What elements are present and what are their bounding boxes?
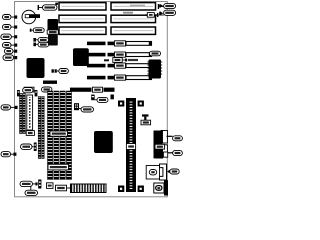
left edge connector label L5 xyxy=(4,49,17,54)
jumper J2 with links xyxy=(146,13,164,18)
PCI slot PCI3 xyxy=(87,63,152,68)
PCI slot PCI2 xyxy=(87,52,152,57)
connector block lower xyxy=(155,152,168,159)
DIMM socket DM1 xyxy=(27,95,33,130)
SIMM socket SM4 xyxy=(42,97,45,159)
connector COM/LPT block xyxy=(154,130,168,158)
connector label J1 xyxy=(159,3,175,8)
label COM1 (right) xyxy=(167,136,183,141)
label JP8 xyxy=(42,87,52,92)
left edge connector label L8 xyxy=(1,152,16,157)
left edge connector label L6 xyxy=(3,55,17,61)
ISA slot ISA2 segment B xyxy=(111,15,156,22)
chip U6 (super I/O) xyxy=(94,131,113,153)
jumper JP10 pins xyxy=(38,180,41,189)
connector CN1 (black bar) xyxy=(43,81,57,84)
label JP6 xyxy=(79,107,94,112)
SIMM socket SIMM4 xyxy=(66,91,71,180)
label JP9 xyxy=(21,144,34,149)
USB connector CN2 xyxy=(146,164,166,180)
retention hole top-left xyxy=(118,101,124,107)
ISA slot ISA1 segment A xyxy=(59,3,106,10)
label U1 xyxy=(47,30,58,34)
label SIMM bank1 xyxy=(50,131,68,136)
chip U2 xyxy=(48,35,58,46)
retention hole bottom-left xyxy=(118,186,124,193)
ISA slot ISA2 segment A xyxy=(59,15,106,22)
label USB (right) xyxy=(167,169,179,174)
PCI slot PCI4 xyxy=(87,75,152,80)
connector CN3 small xyxy=(47,183,54,189)
SIMM socket SM3 xyxy=(38,97,41,159)
SIMM socket SIMM1 xyxy=(48,91,53,180)
chip U5 (QFP) xyxy=(147,60,162,79)
ISA slot ISA3 segment A xyxy=(59,27,106,34)
battery BT1 xyxy=(22,10,40,24)
jumper JP8 xyxy=(35,90,38,96)
label CN4 xyxy=(56,185,71,191)
label U4 with left arrow xyxy=(52,69,69,74)
label JP3 xyxy=(36,38,49,43)
left edge connector label L2 xyxy=(2,25,17,30)
retention hole bottom-right xyxy=(138,186,144,193)
jumper block JP6 xyxy=(74,103,79,110)
CPU slot SLOT1 xyxy=(126,98,136,192)
SIMM socket SM1 xyxy=(20,94,23,134)
jumper JP9 pins xyxy=(34,143,37,152)
left edge connector label L7 xyxy=(1,105,18,110)
chip U1 xyxy=(48,19,59,30)
label JP5 xyxy=(95,97,108,102)
label JP2 xyxy=(30,28,44,33)
label JP11 xyxy=(25,187,38,196)
label PW1 (power conn) xyxy=(104,58,138,63)
ISA slot ISA3 segment B xyxy=(111,27,156,34)
label LPT1 (right) xyxy=(167,150,183,155)
board outline xyxy=(15,2,168,197)
left edge connector label L4 xyxy=(2,43,17,48)
USB1 text xyxy=(123,12,133,14)
left edge connector label L3 xyxy=(1,34,17,39)
label JP10 xyxy=(20,181,38,186)
arrow to connector J1 xyxy=(158,4,164,9)
label DM1 (bottom) xyxy=(26,131,34,136)
connector label J3 xyxy=(159,10,175,15)
ISA slot ISA1 segment B xyxy=(111,3,156,10)
label JP4 xyxy=(36,42,49,47)
FDD connector row xyxy=(70,87,115,92)
SIMM socket SIMM2 xyxy=(54,91,59,180)
jumper JP7 xyxy=(17,90,20,96)
PCI slot PCI1 xyxy=(87,41,152,46)
label DM1 (top) xyxy=(24,87,34,92)
jumper JP5b xyxy=(111,95,114,100)
ISA1 faint text xyxy=(130,5,145,7)
SIMM socket SIMM3 xyxy=(60,91,65,180)
jumper JP5 xyxy=(91,95,94,101)
chip U7 (cache) xyxy=(73,48,89,66)
label JP1 (battery) xyxy=(38,5,57,10)
jumper pins JP3/JP4 xyxy=(33,38,36,42)
end cap mark xyxy=(55,3,58,5)
left edge connector label L1 xyxy=(2,15,17,20)
retention hole top-right xyxy=(138,101,144,107)
keyboard connector KB1 xyxy=(154,180,168,195)
SIMM socket SM2 xyxy=(23,94,26,134)
IDE connector CN4 (striped) xyxy=(71,184,107,193)
label U5 xyxy=(150,51,161,56)
label JP7 xyxy=(23,88,33,93)
chip U3 (chipset) xyxy=(27,58,45,78)
label SIMM bank2 xyxy=(48,164,69,170)
fan header FAN1 xyxy=(141,114,151,124)
